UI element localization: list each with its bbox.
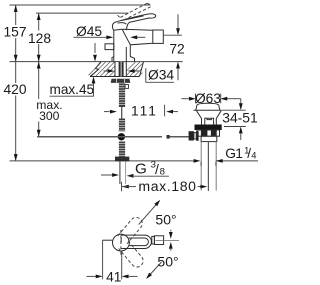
- svg-text:4: 4: [251, 150, 256, 161]
- 50 deg upper leader: [139, 202, 159, 225]
- pop-up knob on body left: [105, 44, 114, 50]
- arrow 420 bottom: [14, 154, 18, 161]
- dim line 128/max300 vertical: [38, 13, 40, 30]
- arrow max300 bottom: [37, 130, 41, 137]
- svg-text:G: G: [135, 161, 147, 178]
- svg-text:157: 157: [3, 25, 26, 40]
- rod clamp at waste: [189, 131, 194, 140]
- center dashes: [120, 230, 122, 256]
- Ø45 leader with arrow: [74, 36, 107, 38]
- max300 end line: [37, 136, 117, 138]
- svg-text:300: 300: [39, 109, 60, 123]
- G3/8 male tube: [119, 161, 121, 184]
- hose nipple block: [125, 85, 128, 89]
- svg-text:72: 72: [169, 41, 184, 56]
- lever raised position dashes: [118, 3, 151, 20]
- waste knurl collar: [197, 130, 220, 136]
- svg-text:128: 128: [28, 31, 51, 46]
- dashed swivel outline lower (-50): [119, 241, 146, 270]
- arrow 128 bottom: [37, 55, 41, 62]
- G1 1/4 arrows at tailpipe on 420 end line: [194, 159, 201, 163]
- counter right break edge: [140, 62, 144, 77]
- spout centerline: [156, 239, 180, 241]
- arrow above counter pointing down: [94, 43, 96, 53]
- arrow 157 bottom: [14, 55, 18, 62]
- counter left break edge: [90, 62, 101, 77]
- second reference line (128 level): [36, 12, 129, 14]
- svg-text:420: 420: [3, 82, 26, 97]
- counter hatching left part: [89, 62, 116, 77]
- braided hose segment 1: [119, 83, 125, 107]
- aerator top view collar: [152, 236, 155, 244]
- counter hatching right part: [126, 62, 143, 77]
- spout bore mini dimension: [170, 230, 172, 232]
- arrow 128 top: [37, 13, 41, 20]
- shank nut: [111, 79, 131, 83]
- svg-text:max.180: max.180: [138, 178, 196, 194]
- faucet shank through counter: [114, 62, 116, 77]
- tailpipe: [200, 142, 202, 191]
- arrow max300 top: [37, 62, 41, 69]
- waste rim line: [194, 109, 222, 111]
- counter top line extending left and right: [10, 61, 183, 63]
- body inner seam line: [125, 47, 127, 62]
- inner contour: [129, 238, 149, 246]
- arrow below pointing up: [93, 83, 95, 96]
- inner tick in circle: [120, 237, 122, 242]
- lever handle: [112, 14, 155, 30]
- rod joint block: [167, 135, 170, 139]
- counter bottom line: [90, 76, 140, 78]
- G3/8 hose nut: [115, 157, 129, 162]
- waste neck nipple: [205, 118, 214, 124]
- dashed swivel outline upper (+50): [118, 215, 145, 244]
- svg-text:G1: G1: [225, 146, 242, 161]
- stub (pop-up knob from top): [103, 239, 113, 241]
- thin rod between: [121, 107, 123, 119]
- 111 dimension: [104, 111, 110, 113]
- 420 end line (hose end level): [10, 160, 194, 162]
- aerator: [153, 30, 164, 43]
- waste flange (dark): [195, 125, 222, 131]
- Ø45 inner arrow pointing left: [132, 36, 145, 38]
- aerator top view block: [154, 236, 163, 245]
- dim line 157/420 vertical: [15, 5, 17, 25]
- 50 deg lower leader: [148, 262, 162, 277]
- pop-up rod horizontal: [37, 136, 162, 138]
- svg-text:111: 111: [131, 104, 158, 119]
- 41 dimension: [102, 240, 104, 279]
- 111 extension tick (spout tip axis): [164, 105, 166, 117]
- spout level extension line: [163, 34, 182, 36]
- faucet body outline: [112, 29, 153, 61]
- waste plug dome: [196, 103, 220, 110]
- braided hose segment 3: [119, 142, 125, 157]
- waste body taper: [197, 110, 221, 124]
- braided hose segment 2: [119, 119, 125, 132]
- Ø34 dimension at counter: [108, 69, 115, 73]
- waste lower collar: [201, 136, 217, 141]
- svg-text:50°: 50°: [157, 254, 178, 270]
- svg-text:Ø34: Ø34: [148, 68, 174, 83]
- svg-text:8: 8: [160, 167, 165, 178]
- top reference line (raised lever tip level): [10, 4, 151, 6]
- Ø63 dimension: [182, 98, 189, 100]
- svg-text:/: /: [155, 161, 159, 177]
- svg-text:34-51: 34-51: [222, 109, 258, 125]
- G3/8 label: [101, 174, 112, 176]
- svg-text:50°: 50°: [155, 212, 176, 228]
- base circle: [113, 234, 130, 251]
- arrow 157 top: [14, 5, 18, 12]
- svg-text:41: 41: [106, 269, 121, 284]
- pivot ball: [118, 133, 125, 140]
- lever inner detail: [118, 16, 144, 24]
- body stadium: [121, 235, 151, 248]
- svg-text:max.45: max.45: [50, 82, 95, 97]
- 34-51 dimension: [222, 109, 246, 111]
- Ø34 label with L leader: [145, 68, 147, 82]
